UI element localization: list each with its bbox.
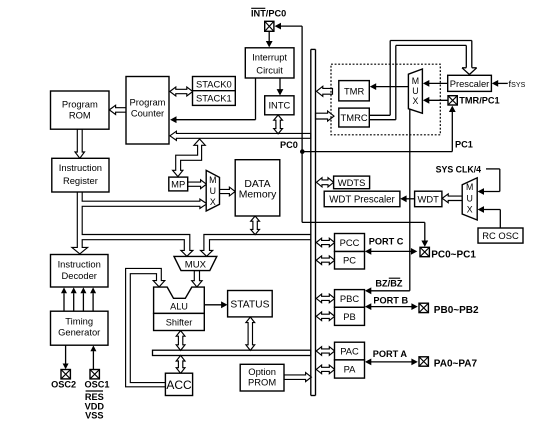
svg-text:PA0~PA7: PA0~PA7: [434, 358, 478, 369]
svg-text:PORT B: PORT B: [373, 295, 408, 305]
svg-text:INTC: INTC: [268, 100, 290, 111]
svg-text:MUX: MUX: [185, 259, 207, 270]
svg-text:ALU: ALU: [170, 301, 188, 311]
svg-text:TMR/PC1: TMR/PC1: [459, 95, 499, 105]
svg-text:DATA: DATA: [244, 179, 270, 190]
svg-text:Generator: Generator: [58, 327, 100, 338]
svg-text:PC0~PC1: PC0~PC1: [431, 250, 476, 261]
svg-text:Interrupt: Interrupt: [252, 52, 287, 63]
svg-text:OSC2: OSC2: [51, 379, 76, 389]
svg-text:Program: Program: [130, 96, 166, 107]
svg-text:X: X: [412, 96, 418, 106]
svg-text:U: U: [412, 86, 418, 96]
svg-text:PB0~PB2: PB0~PB2: [434, 305, 479, 316]
svg-text:STATUS: STATUS: [230, 300, 269, 311]
svg-text:MP: MP: [171, 179, 185, 190]
svg-text:WDTS: WDTS: [338, 177, 366, 188]
svg-text:Instruction: Instruction: [59, 162, 102, 173]
svg-text:WDT: WDT: [418, 193, 440, 204]
svg-text:PBC: PBC: [340, 293, 360, 304]
svg-text:PA: PA: [344, 364, 357, 375]
svg-text:PC1: PC1: [455, 140, 473, 150]
svg-text:X: X: [467, 205, 473, 215]
svg-text:Decoder: Decoder: [61, 270, 96, 281]
svg-text:TMR: TMR: [344, 85, 365, 96]
svg-text:INT/PC0: INT/PC0: [251, 9, 286, 19]
svg-text:Prescaler: Prescaler: [450, 78, 490, 89]
svg-text:VSS: VSS: [85, 411, 103, 421]
svg-text:RC OSC: RC OSC: [482, 230, 519, 241]
svg-text:ACC: ACC: [166, 378, 192, 392]
svg-text:M: M: [466, 182, 473, 192]
svg-text:Shifter: Shifter: [166, 317, 193, 327]
svg-text:PC0: PC0: [280, 140, 298, 150]
svg-text:PAC: PAC: [340, 346, 359, 357]
svg-text:BZ/BZ: BZ/BZ: [375, 279, 402, 289]
svg-text:U: U: [467, 194, 473, 204]
svg-text:PORT A: PORT A: [373, 349, 408, 359]
svg-text:OSC1: OSC1: [84, 379, 109, 389]
svg-text:PCC: PCC: [340, 237, 360, 248]
svg-text:PC: PC: [343, 255, 356, 266]
svg-text:ROM: ROM: [69, 109, 91, 120]
svg-text:STACK0: STACK0: [196, 78, 232, 89]
svg-text:M: M: [412, 76, 419, 86]
svg-text:Option: Option: [248, 366, 276, 377]
svg-text:Timing: Timing: [65, 315, 93, 326]
svg-text:Memory: Memory: [239, 190, 277, 201]
svg-text:PB: PB: [343, 311, 356, 322]
svg-text:Counter: Counter: [131, 108, 164, 119]
svg-text:Register: Register: [63, 175, 98, 186]
svg-text:PROM: PROM: [248, 377, 276, 388]
svg-text:X: X: [210, 197, 216, 207]
svg-text:WDT Prescaler: WDT Prescaler: [329, 195, 395, 206]
svg-text:Program: Program: [62, 99, 98, 110]
svg-text:Instruction: Instruction: [58, 259, 101, 270]
svg-text:PORT C: PORT C: [369, 237, 404, 247]
svg-text:SYS CLK/4: SYS CLK/4: [436, 165, 482, 175]
svg-text:Circuit: Circuit: [256, 64, 283, 75]
svg-text:U: U: [210, 186, 216, 196]
svg-text:TMRC: TMRC: [341, 112, 368, 123]
svg-text:M: M: [209, 175, 216, 185]
svg-text:STACK1: STACK1: [196, 93, 232, 104]
